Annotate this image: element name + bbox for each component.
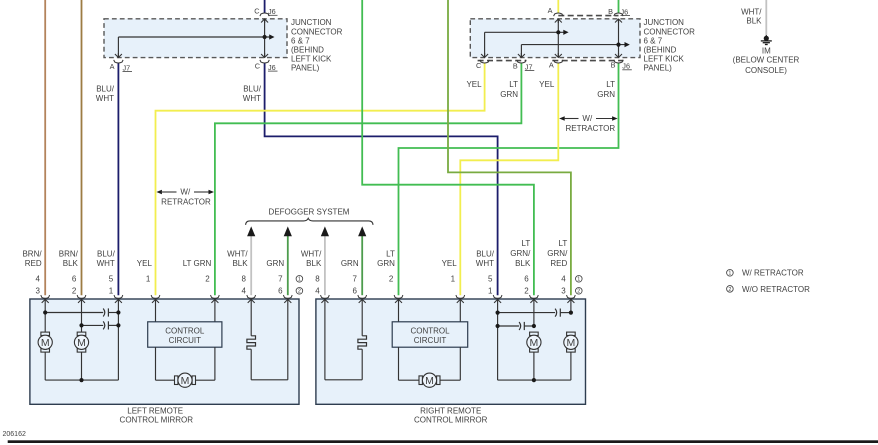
svg-text:2: 2 [205, 275, 210, 284]
svg-text:CONSOLE): CONSOLE) [745, 66, 787, 75]
svg-text:BLK: BLK [515, 259, 531, 268]
svg-text:6 & 7: 6 & 7 [291, 36, 310, 45]
defogger arrow WHT/BLK right [321, 226, 329, 236]
defogger arrow GRN left [284, 226, 292, 236]
wire GRN defogger stub left [287, 236, 289, 295]
svg-text:1: 1 [146, 275, 151, 284]
heater element right [358, 336, 367, 349]
svg-text:BLU/: BLU/ [96, 85, 115, 94]
right mirror internal wiring [324, 299, 326, 379]
svg-text:C: C [476, 61, 481, 70]
svg-text:J6: J6 [622, 62, 630, 71]
svg-text:1: 1 [728, 271, 731, 277]
bottom bus right motors [533, 352, 535, 380]
internal branch B7 to B6 [521, 44, 627, 46]
svg-text:J6: J6 [268, 7, 276, 16]
svg-text:1: 1 [488, 287, 493, 296]
svg-text:LT: LT [559, 239, 568, 248]
defogger arrow WHT/BLK left [247, 226, 255, 236]
svg-text:6: 6 [278, 287, 283, 296]
svg-text:206162: 206162 [3, 431, 26, 438]
svg-text:3: 3 [561, 287, 566, 296]
branch line 2 with capacitor [82, 324, 104, 326]
wire LT GRN/BLK to right mirror pin 6-2 [362, 0, 534, 295]
svg-text:4: 4 [242, 287, 247, 296]
svg-text:A: A [548, 6, 553, 15]
mirror pin entry [358, 295, 367, 298]
wire LT GRN J7-B to left mirror pin 2 [215, 63, 522, 296]
svg-text:6 & 7: 6 & 7 [644, 36, 663, 45]
svg-text:B: B [611, 61, 616, 70]
svg-text:CIRCUIT: CIRCUIT [414, 336, 447, 345]
svg-text:WHT: WHT [476, 259, 494, 268]
svg-text:J6: J6 [268, 63, 276, 72]
control circuit box right [392, 322, 468, 347]
svg-text:M: M [181, 375, 190, 387]
pin C bottom J6 [264, 53, 266, 57]
pin B bottom J6 [618, 53, 620, 57]
svg-text:LEFT KICK: LEFT KICK [644, 54, 685, 63]
legend circled 1 W/ RETRACTOR [727, 270, 734, 277]
wire BRN/RED left mirror pin 4-3 [44, 0, 46, 295]
svg-text:LT: LT [522, 239, 531, 248]
svg-text:6: 6 [524, 275, 529, 284]
mirror pin entry [114, 295, 123, 298]
mirror pin entry [247, 295, 256, 298]
svg-text:WHT: WHT [97, 259, 115, 268]
wire LT GRN into J6 top B [618, 0, 620, 14]
pin B top J6 [618, 19, 620, 23]
svg-text:GRN/: GRN/ [547, 249, 568, 258]
svg-text:CONTROL: CONTROL [410, 326, 450, 335]
svg-text:8: 8 [315, 275, 320, 284]
motor right mirror M2 [564, 332, 578, 352]
svg-text:1: 1 [451, 275, 456, 284]
svg-text:PANEL): PANEL) [291, 64, 320, 73]
svg-text:4: 4 [561, 275, 566, 284]
mirror pin entry [394, 295, 403, 298]
svg-text:LT: LT [606, 80, 615, 89]
mirror pin entry [567, 295, 576, 298]
svg-text:GRN/: GRN/ [510, 249, 531, 258]
motor right mirror retract M [419, 373, 440, 387]
svg-text:LT: LT [509, 80, 518, 89]
mirror pin entry [456, 295, 465, 298]
svg-text:IM: IM [762, 46, 771, 55]
branch line 2 right with capacitor [498, 325, 519, 327]
left mirror internal wiring [44, 299, 46, 332]
wire LT GRN J6-B to right mirror pin 2 [399, 63, 619, 296]
mirror pin entry [77, 295, 86, 298]
bottom border bar [8, 440, 878, 443]
internal branch C to A [485, 31, 567, 33]
svg-text:BLK: BLK [306, 259, 322, 268]
svg-text:LT: LT [386, 250, 395, 259]
svg-text:JUNCTION: JUNCTION [644, 18, 685, 27]
svg-text:W/ RETRACTOR: W/ RETRACTOR [742, 269, 804, 278]
motor left mirror retract M [175, 373, 196, 387]
pin C top J6 [264, 19, 266, 23]
W/ RETRACTOR span right [559, 116, 565, 121]
svg-text:5: 5 [488, 275, 493, 284]
left remote control mirror box [30, 299, 299, 404]
svg-text:YEL: YEL [442, 259, 458, 268]
pin A bottom J7 [117, 53, 119, 57]
svg-text:2: 2 [524, 287, 529, 296]
svg-text:C: C [254, 6, 259, 15]
wire GRN defogger stub right [361, 236, 363, 295]
wire BLU/WHT J7-A to left mirror pin 5-1 [117, 63, 119, 296]
svg-text:3: 3 [36, 287, 41, 296]
ground IM below center console [764, 36, 769, 41]
svg-text:GRN: GRN [597, 90, 615, 99]
svg-text:(BELOW CENTER: (BELOW CENTER [733, 56, 800, 65]
svg-text:5: 5 [109, 275, 114, 284]
J6 internal bus B [618, 19, 620, 57]
svg-text:8: 8 [242, 275, 247, 284]
motor left mirror M1 [38, 332, 52, 352]
wire WHT/BLK to ground IM [765, 0, 767, 35]
circled 1 2 left [296, 276, 303, 283]
W/ RETRACTOR span left [156, 190, 162, 195]
pin A top J6 [557, 19, 559, 23]
svg-text:6: 6 [353, 287, 358, 296]
svg-text:CONTROL MIRROR: CONTROL MIRROR [414, 416, 488, 425]
pin C bottom J7 [484, 53, 486, 57]
svg-text:W/: W/ [582, 114, 593, 123]
pin B bottom J7 [520, 53, 522, 57]
svg-text:WHT/: WHT/ [741, 8, 762, 17]
internal branch to J7-A [118, 36, 272, 38]
wire BRN/BLK left mirror pin 6-2 [81, 0, 83, 295]
defogger brace [246, 218, 373, 225]
svg-text:A: A [549, 61, 554, 70]
svg-text:1: 1 [577, 277, 580, 283]
svg-text:BLK: BLK [63, 259, 79, 268]
svg-text:CONNECTOR: CONNECTOR [644, 27, 696, 36]
wire BLU/WHT J6-C to right mirror pin 5-1 [265, 63, 498, 296]
svg-text:BLK: BLK [232, 259, 248, 268]
svg-text:JUNCTION: JUNCTION [291, 18, 332, 27]
wire YEL right mirror pin 1 to J6-A [460, 63, 558, 296]
svg-text:2: 2 [728, 287, 731, 293]
wire WHT/BLK defogger stub right [324, 236, 326, 295]
defogger arrow GRN right [358, 226, 366, 236]
svg-text:(BEHIND: (BEHIND [644, 45, 677, 54]
svg-text:YEL: YEL [137, 259, 153, 268]
svg-text:M: M [425, 375, 434, 387]
svg-text:WHT/: WHT/ [301, 250, 322, 259]
svg-text:W/O RETRACTOR: W/O RETRACTOR [742, 285, 810, 294]
svg-text:J6: J6 [621, 7, 629, 16]
svg-text:CONTROL MIRROR: CONTROL MIRROR [120, 416, 194, 425]
svg-text:GRN: GRN [266, 259, 284, 268]
wire LT GRN/RED to right mirror pin 4-3 [448, 0, 571, 295]
svg-text:RED: RED [25, 259, 42, 268]
svg-text:RIGHT REMOTE: RIGHT REMOTE [420, 407, 481, 416]
svg-text:M: M [77, 337, 86, 349]
svg-text:GRN: GRN [341, 259, 359, 268]
svg-text:4: 4 [315, 287, 320, 296]
svg-text:1: 1 [298, 277, 301, 283]
mirror pin entry [41, 295, 50, 298]
svg-text:LEFT REMOTE: LEFT REMOTE [127, 407, 183, 416]
right remote control mirror box [316, 299, 586, 404]
legend circled 2 W/O RETRACTOR [727, 286, 734, 293]
svg-text:WHT: WHT [243, 94, 261, 103]
junction connector 6 and 7 box (left) [104, 19, 287, 58]
branch line 1 with capacitor [45, 312, 103, 314]
svg-text:BRN/: BRN/ [22, 250, 42, 259]
mirror pin entry [283, 295, 292, 298]
svg-text:M: M [567, 337, 576, 349]
svg-text:2: 2 [72, 287, 77, 296]
svg-text:C: C [255, 61, 260, 70]
svg-text:4: 4 [36, 275, 41, 284]
circled 1 2 right [576, 276, 583, 283]
svg-text:M: M [41, 337, 50, 349]
control circuit motor leads left [155, 347, 157, 380]
svg-text:B: B [513, 62, 518, 71]
svg-text:7: 7 [278, 275, 283, 284]
svg-text:LT GRN: LT GRN [183, 259, 212, 268]
defogger heater left [250, 299, 252, 335]
svg-text:J7: J7 [525, 62, 533, 71]
connector bar J6 top [558, 15, 618, 17]
mirror pin entry [211, 295, 220, 298]
mirror pin entry [530, 295, 539, 298]
svg-text:B: B [608, 7, 613, 16]
connector bar J6 bottom [552, 60, 623, 62]
pin A bottom J6 [557, 53, 559, 57]
svg-text:WHT/: WHT/ [227, 250, 248, 259]
svg-text:W/: W/ [180, 188, 191, 197]
svg-text:CONNECTOR: CONNECTOR [291, 27, 343, 36]
control circuit motor leads right [398, 347, 400, 380]
mirror pin entry [321, 295, 330, 298]
wire YEL into J6 top A [557, 0, 559, 14]
svg-text:CONTROL: CONTROL [165, 326, 205, 335]
wire YEL left mirror pin 1 to J7-C [156, 63, 485, 296]
bottom bus left motors [44, 352, 46, 380]
svg-text:GRN: GRN [377, 259, 395, 268]
svg-text:6: 6 [72, 275, 77, 284]
svg-text:2: 2 [577, 289, 580, 295]
svg-text:BLU/: BLU/ [97, 250, 116, 259]
svg-text:RETRACTOR: RETRACTOR [161, 197, 211, 206]
svg-text:BLU/: BLU/ [476, 250, 495, 259]
svg-text:WHT: WHT [96, 94, 114, 103]
svg-text:YEL: YEL [466, 80, 482, 89]
svg-text:PANEL): PANEL) [644, 64, 673, 73]
svg-text:7: 7 [353, 275, 358, 284]
svg-text:RETRACTOR: RETRACTOR [565, 124, 615, 133]
control circuit box left [148, 322, 222, 347]
svg-text:GRN: GRN [500, 90, 518, 99]
mirror pin entry [151, 295, 160, 298]
heater element left [247, 336, 256, 349]
junction connector 6 and 7 box (right) [470, 19, 640, 58]
svg-text:A: A [110, 62, 115, 71]
svg-text:DEFOGGER SYSTEM: DEFOGGER SYSTEM [269, 207, 350, 216]
svg-text:LEFT KICK: LEFT KICK [291, 54, 332, 63]
svg-text:J7: J7 [123, 63, 131, 72]
svg-text:BLK: BLK [746, 17, 762, 26]
svg-text:YEL: YEL [539, 80, 555, 89]
mirror pin entry [493, 295, 502, 298]
motor right mirror M1 [527, 332, 541, 352]
svg-text:1: 1 [109, 287, 114, 296]
J6 internal bus A [557, 19, 559, 57]
connector bar J7 bottom [478, 60, 527, 62]
wire BLU/WHT into J6 top [264, 0, 266, 14]
J6 internal bus C [264, 19, 266, 57]
svg-text:BRN/: BRN/ [59, 250, 79, 259]
branch line 1 right with capacitor [498, 312, 555, 314]
svg-text:2: 2 [389, 275, 394, 284]
svg-text:CIRCUIT: CIRCUIT [169, 336, 202, 345]
wire WHT/BLK defogger stub left [250, 236, 252, 295]
svg-text:2: 2 [298, 289, 301, 295]
svg-text:M: M [530, 337, 539, 349]
svg-text:(BEHIND: (BEHIND [291, 45, 324, 54]
svg-text:BLU/: BLU/ [243, 85, 262, 94]
svg-text:RED: RED [550, 259, 567, 268]
motor left mirror M2 [74, 332, 88, 352]
